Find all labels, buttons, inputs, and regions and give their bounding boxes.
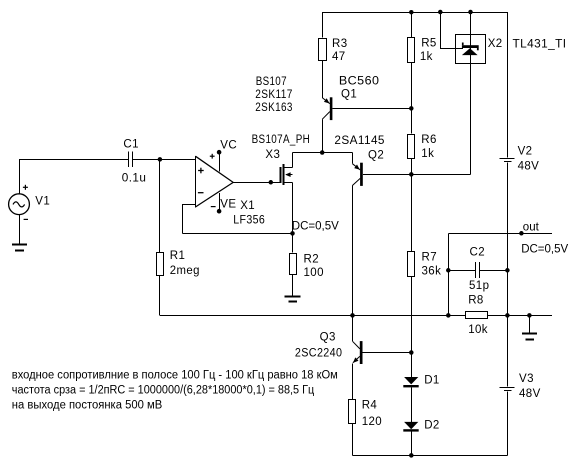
X2 cathode bar with ticks <box>462 45 479 48</box>
wire Q2 base row <box>363 174 471 176</box>
svg-text:Q3: Q3 <box>320 331 336 343</box>
resistor R4 <box>349 400 356 424</box>
node junction Q3 base-D1 <box>409 350 414 355</box>
wire R2 to ground <box>292 274 294 296</box>
Q1 base bar <box>330 97 333 120</box>
node junction C2 right <box>505 268 510 273</box>
wire Q1 collector down <box>322 119 324 152</box>
node junction C1-R1 <box>158 157 163 162</box>
svg-text:BS107A_PH: BS107A_PH <box>252 134 311 146</box>
op-amp - input sign <box>198 192 204 194</box>
wire top rail to V2 <box>507 12 509 158</box>
node on gate wire <box>269 180 274 185</box>
svg-text:VE: VE <box>220 199 236 211</box>
diode D1 <box>404 377 418 384</box>
svg-text:DC=0,5V: DC=0,5V <box>521 244 568 256</box>
svg-text:BC560: BC560 <box>339 75 380 87</box>
svg-text:V2: V2 <box>518 145 533 157</box>
node junction R8 left <box>446 313 451 318</box>
wire R6 top <box>411 108 413 133</box>
wire C2 left <box>448 270 475 272</box>
svg-text:2meg: 2meg <box>170 265 200 277</box>
node junction Q1 collector <box>320 150 325 155</box>
wire C2 right <box>480 270 507 272</box>
wire Q2 collector down <box>352 186 354 316</box>
wire bottom row <box>353 455 508 457</box>
resistor R7 <box>408 252 415 277</box>
op-amp U1 X1 triangle <box>195 156 233 207</box>
wire main row right <box>488 315 552 317</box>
node out dot <box>519 231 524 236</box>
voltage source V1 <box>9 194 30 215</box>
svg-text:D2: D2 <box>424 420 440 432</box>
svg-text:LF356: LF356 <box>233 215 265 227</box>
svg-text:X3: X3 <box>265 149 280 161</box>
wire Q3 base row <box>363 352 412 354</box>
wire main row left <box>160 315 466 317</box>
resistor R2 <box>290 254 297 275</box>
wire out row <box>448 233 552 235</box>
Q3 base bar <box>360 341 363 364</box>
wire top rail <box>322 12 507 14</box>
svg-text:out: out <box>523 221 540 233</box>
wire R7 bottom <box>411 276 413 352</box>
op-amp VC pin <box>219 152 221 172</box>
svg-text:36k: 36k <box>422 265 442 277</box>
node junction bottom D2 <box>409 453 414 458</box>
node junction V rail <box>505 313 510 318</box>
svg-text:R8: R8 <box>468 295 484 307</box>
wire op-amp output <box>233 182 280 184</box>
wire Q3 collector from main row <box>352 315 354 341</box>
op-amp VE pin <box>219 193 221 211</box>
svg-text:10k: 10k <box>468 324 488 336</box>
wire D1 to D2 <box>411 387 413 422</box>
battery V2 <box>500 158 515 160</box>
wire out column down <box>448 233 450 315</box>
svg-text:V3: V3 <box>519 373 534 385</box>
wire Q1 base row <box>332 108 411 110</box>
capacitor C1 <box>128 152 130 167</box>
V1 plus sign <box>23 186 28 188</box>
svg-text:R1: R1 <box>170 250 186 262</box>
svg-text:1k: 1k <box>420 51 433 63</box>
svg-text:47: 47 <box>332 51 346 63</box>
node junction Q2-Q3 collector <box>350 313 355 318</box>
V1 minus sign <box>24 218 28 220</box>
wire input row left (V1 top to C1) <box>19 159 21 194</box>
wire R7 top <box>411 174 413 251</box>
svg-text:DC=0,5V: DC=0,5V <box>292 221 339 233</box>
ground (right) <box>522 333 537 335</box>
wire C1 right to op-amp <box>133 159 195 161</box>
svg-text:R7: R7 <box>422 251 438 263</box>
wire Q3 emitter to R4 <box>352 364 354 400</box>
svg-text:на выходе постоянка 500 мВ: на выходе постоянка 500 мВ <box>12 399 163 411</box>
wire V1 to ground <box>19 215 21 244</box>
svg-text:1k: 1k <box>421 148 434 160</box>
X3 drain <box>284 167 292 169</box>
node top rail X2 ref <box>438 10 443 15</box>
node top rail X2 cathode <box>468 10 473 15</box>
node junction R6-Q2 base-X2 <box>409 172 414 177</box>
shunt regulator X2 TL431 box <box>456 35 486 64</box>
svg-text:TL431_TI: TL431_TI <box>513 39 567 51</box>
wire ground stub right <box>529 315 531 333</box>
node feedback junction DC=0,5V <box>290 231 295 236</box>
svg-text:R5: R5 <box>421 38 437 50</box>
X3 bulk arrow <box>286 174 292 176</box>
svg-text:D1: D1 <box>424 374 440 386</box>
svg-text:Q2: Q2 <box>368 149 384 161</box>
svg-text:51p: 51p <box>469 280 489 292</box>
svg-text:48V: 48V <box>518 160 540 172</box>
svg-text:V1: V1 <box>35 196 50 208</box>
transistor X3 MOSFET gate bar <box>280 167 282 183</box>
wire R1 bottom <box>159 275 161 315</box>
wire Q2 emitter from X3 row <box>352 153 354 164</box>
ground (V1) <box>12 244 27 246</box>
svg-text:2SA1145: 2SA1145 <box>334 135 385 147</box>
svg-text:R6: R6 <box>421 134 437 146</box>
node junction ground right <box>527 313 532 318</box>
Q2 emitter arrow <box>354 165 360 170</box>
node junction R5-R6-Q1 base <box>409 106 414 111</box>
svg-text:C1: C1 <box>123 138 139 150</box>
svg-text:входное сопротивлние в полосе: входное сопротивлние в полосе 100 Гц - 1… <box>12 370 338 382</box>
resistor R8 <box>466 312 488 319</box>
X3 channel bar <box>283 164 285 185</box>
capacitor C2 <box>475 262 477 278</box>
resistor R3 <box>319 39 327 61</box>
Q2 collector diagonal <box>352 178 360 185</box>
svg-text:VC: VC <box>220 140 237 152</box>
wire top rail to R3 <box>322 12 324 38</box>
X2 anode triangle <box>462 48 478 55</box>
wire R3 to Q1 emitter <box>322 61 324 98</box>
wire R5 top <box>411 12 413 37</box>
svg-text:48V: 48V <box>519 388 541 400</box>
svg-text:C2: C2 <box>470 246 486 258</box>
svg-text:R2: R2 <box>304 253 320 265</box>
wire X2 cathode-anode column <box>470 12 472 174</box>
svg-text:2SK163: 2SK163 <box>255 102 292 114</box>
transistor Q1 emitter diagonal with arrow <box>322 98 330 104</box>
svg-text:100: 100 <box>304 267 324 279</box>
node junction C2 left <box>446 268 451 273</box>
wire feedback stub minus input <box>183 204 196 206</box>
svg-text:R4: R4 <box>362 400 378 412</box>
Q2 base bar <box>360 163 363 186</box>
svg-text:R3: R3 <box>332 38 348 50</box>
wire X2 ref lead <box>440 12 442 49</box>
resistor R6 <box>408 135 415 159</box>
wire R1 top <box>159 159 161 252</box>
svg-text:120: 120 <box>362 416 382 428</box>
wire R5 bottom <box>411 62 413 109</box>
svg-text:2SK117: 2SK117 <box>255 89 292 101</box>
wire D2 to bottom row <box>411 432 413 456</box>
wire Q3 base junction to D1 <box>411 353 413 378</box>
svg-text:Q1: Q1 <box>341 89 357 101</box>
diode D2 <box>404 422 418 429</box>
resistor R5 <box>408 38 415 63</box>
wire X3 drain row to Q2 <box>293 152 353 154</box>
svg-text:BS107: BS107 <box>256 76 287 88</box>
wire R6 bottom <box>411 158 413 174</box>
wire V2 bottom rail <box>507 162 509 386</box>
ground (R2) <box>285 296 301 298</box>
wire V3 to bottom row <box>507 391 509 455</box>
svg-text:X1: X1 <box>240 200 255 212</box>
svg-text:частота срза = 1/2пRC = 100000: частота срза = 1/2пRC = 1000000/(6,28*18… <box>12 384 315 396</box>
wire R4 bottom <box>352 423 354 455</box>
svg-text:2SC2240: 2SC2240 <box>295 347 343 359</box>
battery V3 <box>500 387 515 389</box>
svg-text:0.1u: 0.1u <box>122 172 147 184</box>
node top rail R5 <box>409 10 414 15</box>
wire R2 top <box>292 233 294 252</box>
X3 source <box>284 182 292 184</box>
svg-text:X2: X2 <box>488 38 503 50</box>
resistor R1 <box>157 253 164 276</box>
op-amp + input sign <box>198 170 204 172</box>
Q1 collector diagonal <box>322 112 330 120</box>
Q3 emitter diagonal with arrow <box>353 356 360 363</box>
